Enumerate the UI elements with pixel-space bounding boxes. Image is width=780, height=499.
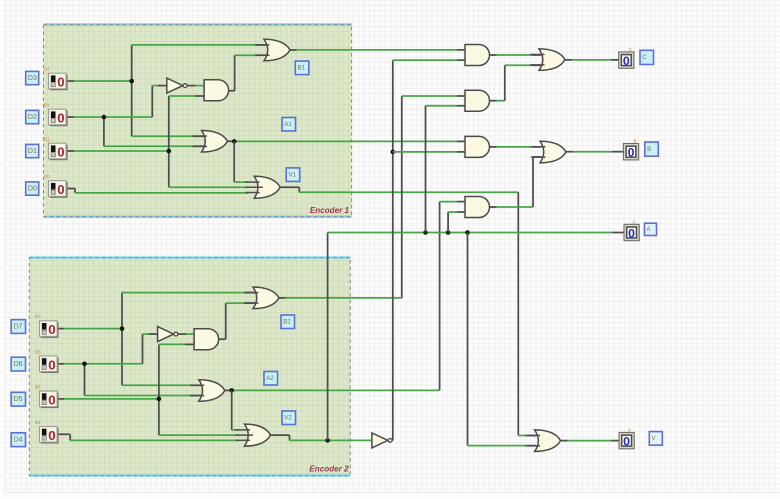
node J13 junction NOT V2 line <box>391 150 396 155</box>
svg-text:0: 0 <box>623 54 630 68</box>
toggle switch D5 <box>41 393 59 409</box>
svg-text:D3: D3 <box>28 75 37 82</box>
svg-text:V: V <box>652 436 656 442</box>
net label B1 <box>295 61 309 75</box>
canvas lower edge <box>3 492 780 494</box>
svg-text:V: V <box>628 428 631 433</box>
net label C <box>640 50 654 64</box>
wire NOT U7 output riser to AND U8 input B and AND U10 input B <box>391 439 394 441</box>
wire AND U10 output to OR U14 input A <box>490 146 497 148</box>
svg-text:0: 0 <box>48 322 55 337</box>
logic probe display C <box>619 52 634 68</box>
terminal label D7 <box>11 320 25 334</box>
net label V <box>649 432 662 446</box>
terminal label D0 <box>26 182 39 195</box>
wire NOT U1 output to AND U2 input A <box>187 85 196 87</box>
net label B2 <box>281 315 295 329</box>
toggle switch D7 <box>41 322 59 338</box>
NOT gate U7 <box>372 433 388 448</box>
OR gate V1 3-input <box>254 176 280 198</box>
svg-text:0: 0 <box>57 182 64 197</box>
wire node J6 branch to OR A2 input B <box>84 364 86 396</box>
node J3 junction D1 <box>167 149 172 154</box>
wire riser to AND U11 input B from line A <box>447 212 449 233</box>
wire D2 switch to NOT U1 input <box>66 116 74 118</box>
net label B <box>645 142 659 156</box>
svg-text:B: B <box>647 146 651 153</box>
OR gate A1 <box>202 131 228 153</box>
net label A <box>645 223 657 235</box>
wire node J13 to AND U10 input B <box>393 151 457 153</box>
wire D3 switch to node J1 <box>66 80 74 82</box>
wire riser V2 to output line A <box>327 233 329 441</box>
wire D6 switch to NOT U5 input <box>57 363 64 365</box>
svg-text:Encoder 2: Encoder 2 <box>309 465 349 474</box>
AND gate U8 <box>465 45 490 66</box>
svg-text:D2: D2 <box>28 114 37 121</box>
toggle switch D0 <box>50 182 68 198</box>
net label A1 <box>282 118 296 132</box>
svg-text:B: B <box>634 139 637 144</box>
wire line A branch down to OR U13 input B <box>467 233 469 446</box>
toggle switch D6 <box>41 357 59 373</box>
wire OR U13 output to display V <box>561 440 568 442</box>
terminal label D4 <box>11 433 25 447</box>
wire node J1 riser to B1 input A and A1 input A <box>131 45 133 136</box>
terminal label D5 <box>11 392 25 406</box>
OR gate A2 <box>199 380 225 402</box>
svg-text:C: C <box>629 47 632 52</box>
wire output line A to display A <box>328 232 613 234</box>
net label V1 <box>286 168 300 182</box>
wire node J3 riser to AND U2 input B and V1 input B <box>168 96 170 187</box>
svg-text:D4: D4 <box>35 420 41 425</box>
svg-text:A: A <box>647 227 651 233</box>
toggle switch D1 <box>50 145 68 161</box>
node J2 junction D2 <box>102 115 107 120</box>
node J12 junction on line A <box>465 230 470 235</box>
svg-text:0: 0 <box>48 357 55 372</box>
wire riser to AND U9 input B from line A <box>425 106 427 233</box>
toggle switch D4 <box>41 428 59 444</box>
node J8 junction A2 output <box>229 388 234 393</box>
AND gate U10 <box>465 136 490 157</box>
svg-text:A: A <box>633 219 636 224</box>
svg-text:Encoder 1: Encoder 1 <box>310 206 350 215</box>
logic probe display B <box>623 144 638 160</box>
OR gate U12 <box>539 49 565 71</box>
NOT gate U5 <box>158 327 174 342</box>
wire OR B1 output to AND U8 input A <box>290 49 297 51</box>
wire OR A1 output to AND U10 input A <box>228 140 233 142</box>
net label V2 <box>282 411 296 425</box>
svg-text:V2: V2 <box>284 415 292 422</box>
svg-text:D7: D7 <box>14 323 23 330</box>
wire OR V2 output to NOT U7 input (net V2) <box>271 434 290 436</box>
terminal label D6 <box>11 357 25 371</box>
OR gate B2 <box>253 287 279 309</box>
NOT gate U1 <box>167 78 183 93</box>
svg-text:B2: B2 <box>283 319 291 326</box>
svg-text:V1: V1 <box>288 171 296 178</box>
AND gate U11 <box>465 197 490 218</box>
wire AND U6 output riser to OR B2 input B <box>219 338 226 340</box>
svg-text:D1: D1 <box>28 148 37 155</box>
wire OR U12 output to display C <box>564 59 572 61</box>
svg-text:0: 0 <box>57 75 64 90</box>
svg-text:D6: D6 <box>35 349 41 354</box>
logic probe display A <box>624 224 639 240</box>
wire node J7 riser to AND U6 input B and V2 input B <box>158 344 160 435</box>
wire node J8 branch to OR V2 input A <box>231 390 233 430</box>
svg-text:D2: D2 <box>44 103 50 108</box>
terminal label D1 <box>26 144 39 157</box>
wire OR V1 output to OR U13 input A (net V1) <box>280 186 299 188</box>
wire to OR B1 input A <box>132 44 256 46</box>
logic probe display V <box>619 432 634 448</box>
svg-text:D5: D5 <box>14 396 23 403</box>
node J7 junction D5 <box>157 397 162 402</box>
wire node J2 branch to OR A1 input B <box>103 117 105 146</box>
toggle switch D3 <box>50 75 68 91</box>
wire AND U8 output to OR U12 input A <box>490 54 497 56</box>
wire OR B2 output to AND U9 input A (net B2) <box>279 297 286 299</box>
svg-text:A1: A1 <box>284 121 292 128</box>
wire D0 switch to OR V1 input C <box>66 188 75 190</box>
svg-text:B1: B1 <box>298 65 306 72</box>
node J5 junction D7 <box>120 326 125 331</box>
node J6 junction D6 <box>82 362 87 367</box>
OR gate B1 <box>264 39 290 61</box>
svg-text:0: 0 <box>57 111 64 126</box>
toggle switch D2 <box>50 111 68 127</box>
svg-text:A2: A2 <box>266 375 274 382</box>
net label A2 <box>264 372 278 386</box>
wire AND U9 output riser to OR U12 input B <box>490 100 497 102</box>
svg-text:D4: D4 <box>14 436 23 443</box>
svg-text:0: 0 <box>623 435 630 449</box>
wire AND U11 output riser to OR U14 input B <box>490 206 497 208</box>
svg-text:D0: D0 <box>28 185 37 192</box>
svg-text:D7: D7 <box>35 314 41 319</box>
svg-text:0: 0 <box>48 428 55 443</box>
svg-text:D5: D5 <box>35 384 41 389</box>
OR gate U14 <box>540 141 566 163</box>
svg-text:D6: D6 <box>14 361 23 368</box>
wire AND U2 output riser to OR B1 input B <box>229 90 235 92</box>
Encoder 1 sub-sheet box <box>44 25 352 217</box>
Encoder 2 sub-sheet box <box>29 258 350 476</box>
wire OR A2 output to AND U11 input A (net A2) <box>225 389 230 391</box>
OR gate U13 <box>535 430 561 452</box>
svg-text:0: 0 <box>628 146 635 160</box>
AND gate U6 <box>194 329 219 350</box>
node J4 junction A1 output <box>232 139 237 144</box>
wire NOT U5 output to AND U6 input A <box>178 333 186 335</box>
AND gate U9 <box>465 90 490 111</box>
svg-text:0: 0 <box>48 393 55 408</box>
svg-text:D1: D1 <box>44 137 50 142</box>
svg-text:D0: D0 <box>44 174 50 179</box>
OR gate V2 3-input <box>245 424 271 446</box>
wire to OR A1 input A <box>132 135 193 137</box>
wire D5 switch to node J7 <box>57 398 64 400</box>
node J9 junction V2 to A-line riser <box>325 438 330 443</box>
wire node J4 branch to OR V1 input A <box>233 141 235 182</box>
terminal label D2 <box>26 110 39 123</box>
node J11 junction on line A <box>446 230 451 235</box>
svg-text:0: 0 <box>57 145 64 160</box>
wire node J5 riser to B2 input A and A2 input A <box>121 293 123 386</box>
svg-text:C: C <box>642 54 647 61</box>
node J10 junction on line A <box>423 230 428 235</box>
svg-text:D3: D3 <box>44 67 50 72</box>
node J1 junction D3 <box>129 79 134 84</box>
wire D1 switch to node J3 <box>66 150 74 152</box>
AND gate U2 <box>204 80 229 101</box>
wire D7 switch to node J5 <box>57 328 64 330</box>
terminal label D3 <box>26 71 39 84</box>
wire D4 switch to OR V2 input C <box>57 433 70 435</box>
wire OR U14 output to display B <box>566 151 573 153</box>
svg-text:0: 0 <box>628 226 635 240</box>
